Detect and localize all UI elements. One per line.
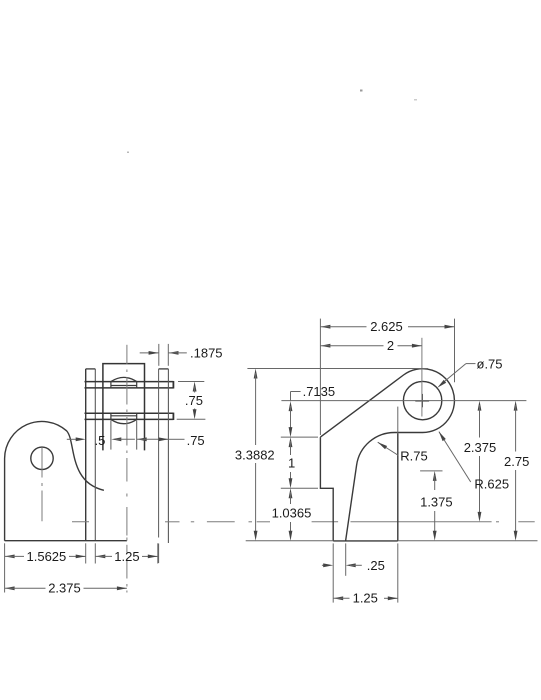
front view: tab hole vertical centerline	[41, 448, 43, 521]
svg-text:ø.75: ø.75	[477, 356, 503, 371]
leader and label R.625	[439, 432, 509, 492]
dim 2	[320, 338, 422, 353]
dim 1.5625	[5, 549, 86, 564]
dim .25	[322, 558, 385, 573]
front view: part bottom edge	[5, 540, 127, 542]
svg-text:2.375: 2.375	[464, 440, 497, 455]
dim 1.25 (right view)	[333, 591, 398, 606]
svg-text:R.625: R.625	[474, 477, 509, 492]
hole vertical centerline / dim 2 extension	[421, 338, 423, 417]
dim .1875 (pin width)	[140, 345, 223, 360]
front view: tab outline (rounded top, left edge, S-blend to plate)	[5, 421, 104, 540]
dim 2.75	[504, 401, 529, 541]
speck top-left	[127, 152, 129, 154]
roller extension lines below bar 2	[111, 421, 137, 450]
ext: step horizontal	[281, 487, 318, 489]
clevis vertical centerline	[126, 345, 128, 541]
ext: leg right vertical inside boss	[397, 407, 399, 434]
svg-text:1.25: 1.25	[353, 591, 378, 606]
ext: hole center horizontal	[281, 400, 526, 402]
side view: hole	[403, 381, 441, 419]
speck top-right	[414, 99, 417, 101]
ext: bottom-left corner vertical	[332, 543, 334, 602]
bottom dims extension lines (left view)	[5, 543, 158, 592]
speck top-mid	[360, 90, 363, 92]
ext: corner A horizontal	[281, 436, 318, 438]
right pin right edge (extends down)	[167, 369, 169, 543]
svg-text:.1875: .1875	[190, 345, 223, 360]
clevis centerline lower extension	[126, 545, 128, 593]
dim 1	[288, 437, 295, 488]
front view: left pin top cap	[86, 368, 96, 370]
svg-text:.75: .75	[187, 433, 205, 448]
front view: plate left edge	[85, 369, 87, 541]
svg-text:2.75: 2.75	[504, 454, 529, 469]
svg-text:.75: .75	[185, 393, 203, 408]
leader and label ø.75	[437, 356, 502, 388]
roller ticks through bar 1	[111, 382, 137, 389]
svg-text:2.375: 2.375	[48, 581, 81, 596]
front view: left pin inner edge	[94, 369, 96, 541]
ext: boss right vertical	[454, 319, 456, 383]
svg-text:1.375: 1.375	[420, 495, 453, 510]
link side bar 2 (lower strip)	[85, 413, 174, 420]
dim 1.375	[420, 471, 453, 541]
roller top dome arc	[111, 377, 137, 381]
ext: leg bottom-left vertical	[345, 543, 347, 575]
ext: boss top horizontal	[247, 368, 428, 370]
dim .75 horizontal (roller to pin)	[137, 433, 205, 448]
link side bar 1 (upper strip)	[85, 381, 174, 389]
dim 2.625	[320, 319, 454, 334]
svg-text:R.75: R.75	[400, 448, 427, 463]
svg-text:1: 1	[288, 456, 295, 471]
hole crosshair ticks	[415, 394, 429, 407]
roller bottom dome arc	[111, 419, 137, 423]
svg-text:3.3882: 3.3882	[235, 447, 275, 462]
right pin top cap	[159, 368, 169, 370]
ext: baseline	[246, 540, 538, 542]
ext: leg right vertical below	[397, 543, 399, 602]
dim .75 vertical (bar outer faces)	[185, 382, 203, 420]
svg-text:.5: .5	[95, 433, 106, 448]
dim .5 (plate to roller)	[67, 433, 135, 448]
front view: tab hole	[31, 447, 53, 469]
horizontal centerline y=522	[72, 521, 535, 523]
dim .1875 extension lines	[159, 344, 169, 366]
svg-text:.25: .25	[367, 558, 385, 573]
svg-text:2: 2	[387, 338, 394, 353]
dim .75 vertical extension lines	[177, 382, 206, 420]
dim 3.3882	[235, 369, 275, 541]
right pin left edge (extends down)	[158, 369, 160, 563]
roller ticks through bar 2	[111, 413, 137, 420]
side view: leg right edge	[397, 433, 399, 541]
svg-text:1.0365: 1.0365	[272, 506, 312, 521]
dim 2.375 (right view)	[464, 401, 497, 522]
svg-text:1.5625: 1.5625	[27, 549, 67, 564]
ext: fillet tangency horizontal	[420, 470, 442, 472]
svg-text:2.625: 2.625	[370, 319, 403, 334]
dim 2.375 (left view)	[5, 581, 127, 596]
svg-text:1.25: 1.25	[114, 549, 139, 564]
side view: outline (slant, boss, fillet, leg, step)	[320, 369, 454, 541]
dim .7135 with bracket	[289, 384, 336, 437]
leader and label R.75	[378, 442, 428, 463]
dim 1.25 (left view)	[95, 549, 158, 564]
ext: part left edge vertical	[319, 319, 321, 435]
roller bottom chord	[111, 415, 137, 417]
link plate rectangle (top and side edges)	[103, 364, 145, 451]
dim 1.0365	[272, 488, 312, 540]
svg-text:.7135: .7135	[303, 384, 336, 399]
roller top chord	[111, 385, 137, 387]
